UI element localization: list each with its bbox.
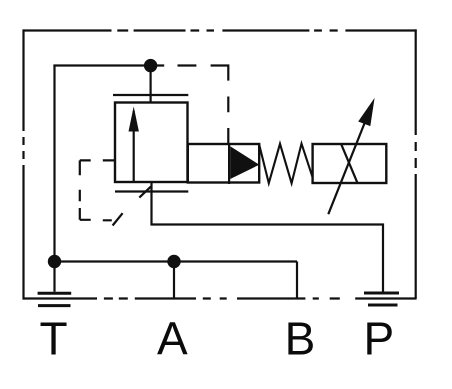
valve U1: flow arrow shaft [133, 111, 135, 182]
valve U1: seat line (bottom) [115, 190, 188, 192]
valve U1: body square [115, 103, 188, 183]
tank symbol at T: bar 1 [38, 292, 72, 295]
svg-text:T: T [39, 313, 67, 365]
subplate boundary bottom edge (dash-dot) [24, 297, 417, 299]
subplate boundary left edge (dash-dot) [22, 29, 24, 299]
solenoid triangle (filled) [230, 146, 259, 179]
tank symbol at T: bar 2 [38, 304, 71, 307]
node: A junction dot [167, 255, 180, 268]
solenoid stage box [188, 144, 259, 183]
pilot line (dashed) from node to solenoid stage [157, 64, 228, 144]
wire: B drop down to boundary [296, 262, 298, 299]
valve U1: spring cap line (top) [113, 94, 188, 96]
pilot drain line (dashed loop at valve left) [80, 160, 116, 220]
proportional adjuster box [313, 144, 387, 183]
solenoid triangle base line [228, 144, 230, 184]
tank symbol at P: bar 2 [368, 304, 398, 307]
pilot drain diagonal (dashed) [113, 187, 151, 226]
wire: valve bottom port down, across and down to P tank [152, 182, 384, 292]
tank symbol at P: bar 1 [364, 292, 399, 295]
wire: pilot node to valve top port [150, 66, 152, 103]
svg-text:A: A [157, 313, 188, 365]
svg-text:P: P [363, 313, 394, 365]
node: T junction dot [48, 255, 61, 268]
wire: T riser from top rail down to tank [53, 66, 55, 292]
spring [259, 144, 312, 184]
adjuster arrow shaft [328, 123, 364, 214]
subplate boundary top edge (dash-dot) [24, 29, 417, 31]
wire: A stub down to boundary [173, 262, 175, 299]
node: pilot junction dot [144, 59, 157, 72]
subplate boundary right edge (dash-dot) [415, 29, 417, 298]
bus wire T-A-B [55, 260, 298, 262]
svg-text:B: B [285, 313, 316, 365]
adjuster arrowhead [358, 98, 374, 126]
wire: top rail [53, 64, 150, 66]
valve U1: flow arrow head [129, 107, 139, 132]
adjuster X cross line [341, 144, 357, 182]
